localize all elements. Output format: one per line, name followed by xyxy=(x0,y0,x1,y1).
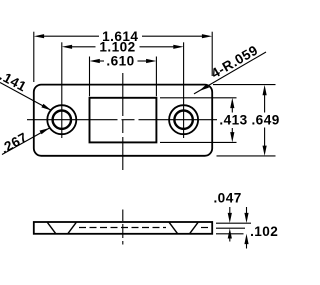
arrow 1.102 left xyxy=(62,45,72,49)
dimension .610 extension line left xyxy=(89,57,91,97)
dimension .102 lower arrow (up) xyxy=(244,234,248,249)
extension line counterbore depth (side view) xyxy=(216,227,245,229)
leader .267 line xyxy=(2,128,50,155)
right hole vertical centerline / extension for 1.102 xyxy=(183,42,185,138)
svg-text:.649: .649 xyxy=(251,113,279,128)
arrow 1.614 left xyxy=(34,34,44,38)
dimension .649 extension line top xyxy=(213,84,276,86)
hole left inner circle xyxy=(53,111,71,129)
extension line bottom surface (side view) xyxy=(216,233,244,235)
dimension .413 extension line top xyxy=(160,97,237,99)
extension line top surface (side view) xyxy=(216,222,251,224)
dimension 1.614 extension line right xyxy=(211,32,213,76)
side view hidden line (dashed) xyxy=(79,227,212,229)
arrow .649 up xyxy=(263,85,267,95)
leader .141 line xyxy=(0,83,52,111)
side view vertical centerline xyxy=(122,210,124,245)
center rectangular cutout xyxy=(90,98,157,143)
plate outline (top view) xyxy=(34,85,212,156)
svg-text:1.102: 1.102 xyxy=(99,39,135,54)
hole right outer circle xyxy=(169,105,198,134)
dimension line .610 xyxy=(99,60,148,62)
leader .267 arrowhead xyxy=(40,128,50,134)
vertical centerline (top view) xyxy=(122,73,124,170)
dimension line 1.102 xyxy=(71,46,175,48)
leader 4-R.059 line xyxy=(194,52,266,94)
horizontal centerline through holes xyxy=(27,119,217,121)
svg-text:.610: .610 xyxy=(106,54,134,69)
arrow .610 left xyxy=(90,59,100,63)
svg-text:.413: .413 xyxy=(219,113,247,128)
side view outline xyxy=(34,222,212,234)
leader 4-R.059 arrowhead xyxy=(199,84,209,91)
svg-text:.102: .102 xyxy=(250,224,278,239)
side view left countersink right edge xyxy=(68,222,76,233)
arrow 1.102 right xyxy=(173,45,183,49)
arrow .413 down xyxy=(230,132,234,142)
side view right countersink right edge xyxy=(190,222,198,233)
dimension .047 upper arrow (down) xyxy=(228,207,232,223)
side view left countersink left edge xyxy=(47,222,55,233)
side view right countersink left edge xyxy=(169,222,177,233)
dimension .413 extension line bottom xyxy=(160,141,237,143)
dimension line .649 xyxy=(264,94,266,147)
arrow 1.614 right xyxy=(202,34,212,38)
arrow .649 down xyxy=(263,146,267,156)
svg-text:.047: .047 xyxy=(213,191,241,206)
hole right inner circle xyxy=(174,111,192,129)
arrow .610 right xyxy=(146,59,156,63)
leader .141 arrowhead xyxy=(41,104,51,111)
dimension .047 lower arrow (up) xyxy=(228,228,232,241)
dimension .610 extension line right xyxy=(155,57,157,97)
dimension .102 upper arrow (down) xyxy=(244,207,248,223)
arrow .413 up xyxy=(230,98,234,108)
dimension line 1.614 xyxy=(43,35,203,37)
left hole vertical centerline / extension for 1.102 xyxy=(61,42,63,138)
dimension 1.614 extension line left xyxy=(33,32,35,82)
dimension line .413 xyxy=(231,107,233,134)
hole left outer circle xyxy=(47,105,76,134)
dimension .649 extension line bottom xyxy=(217,155,276,157)
